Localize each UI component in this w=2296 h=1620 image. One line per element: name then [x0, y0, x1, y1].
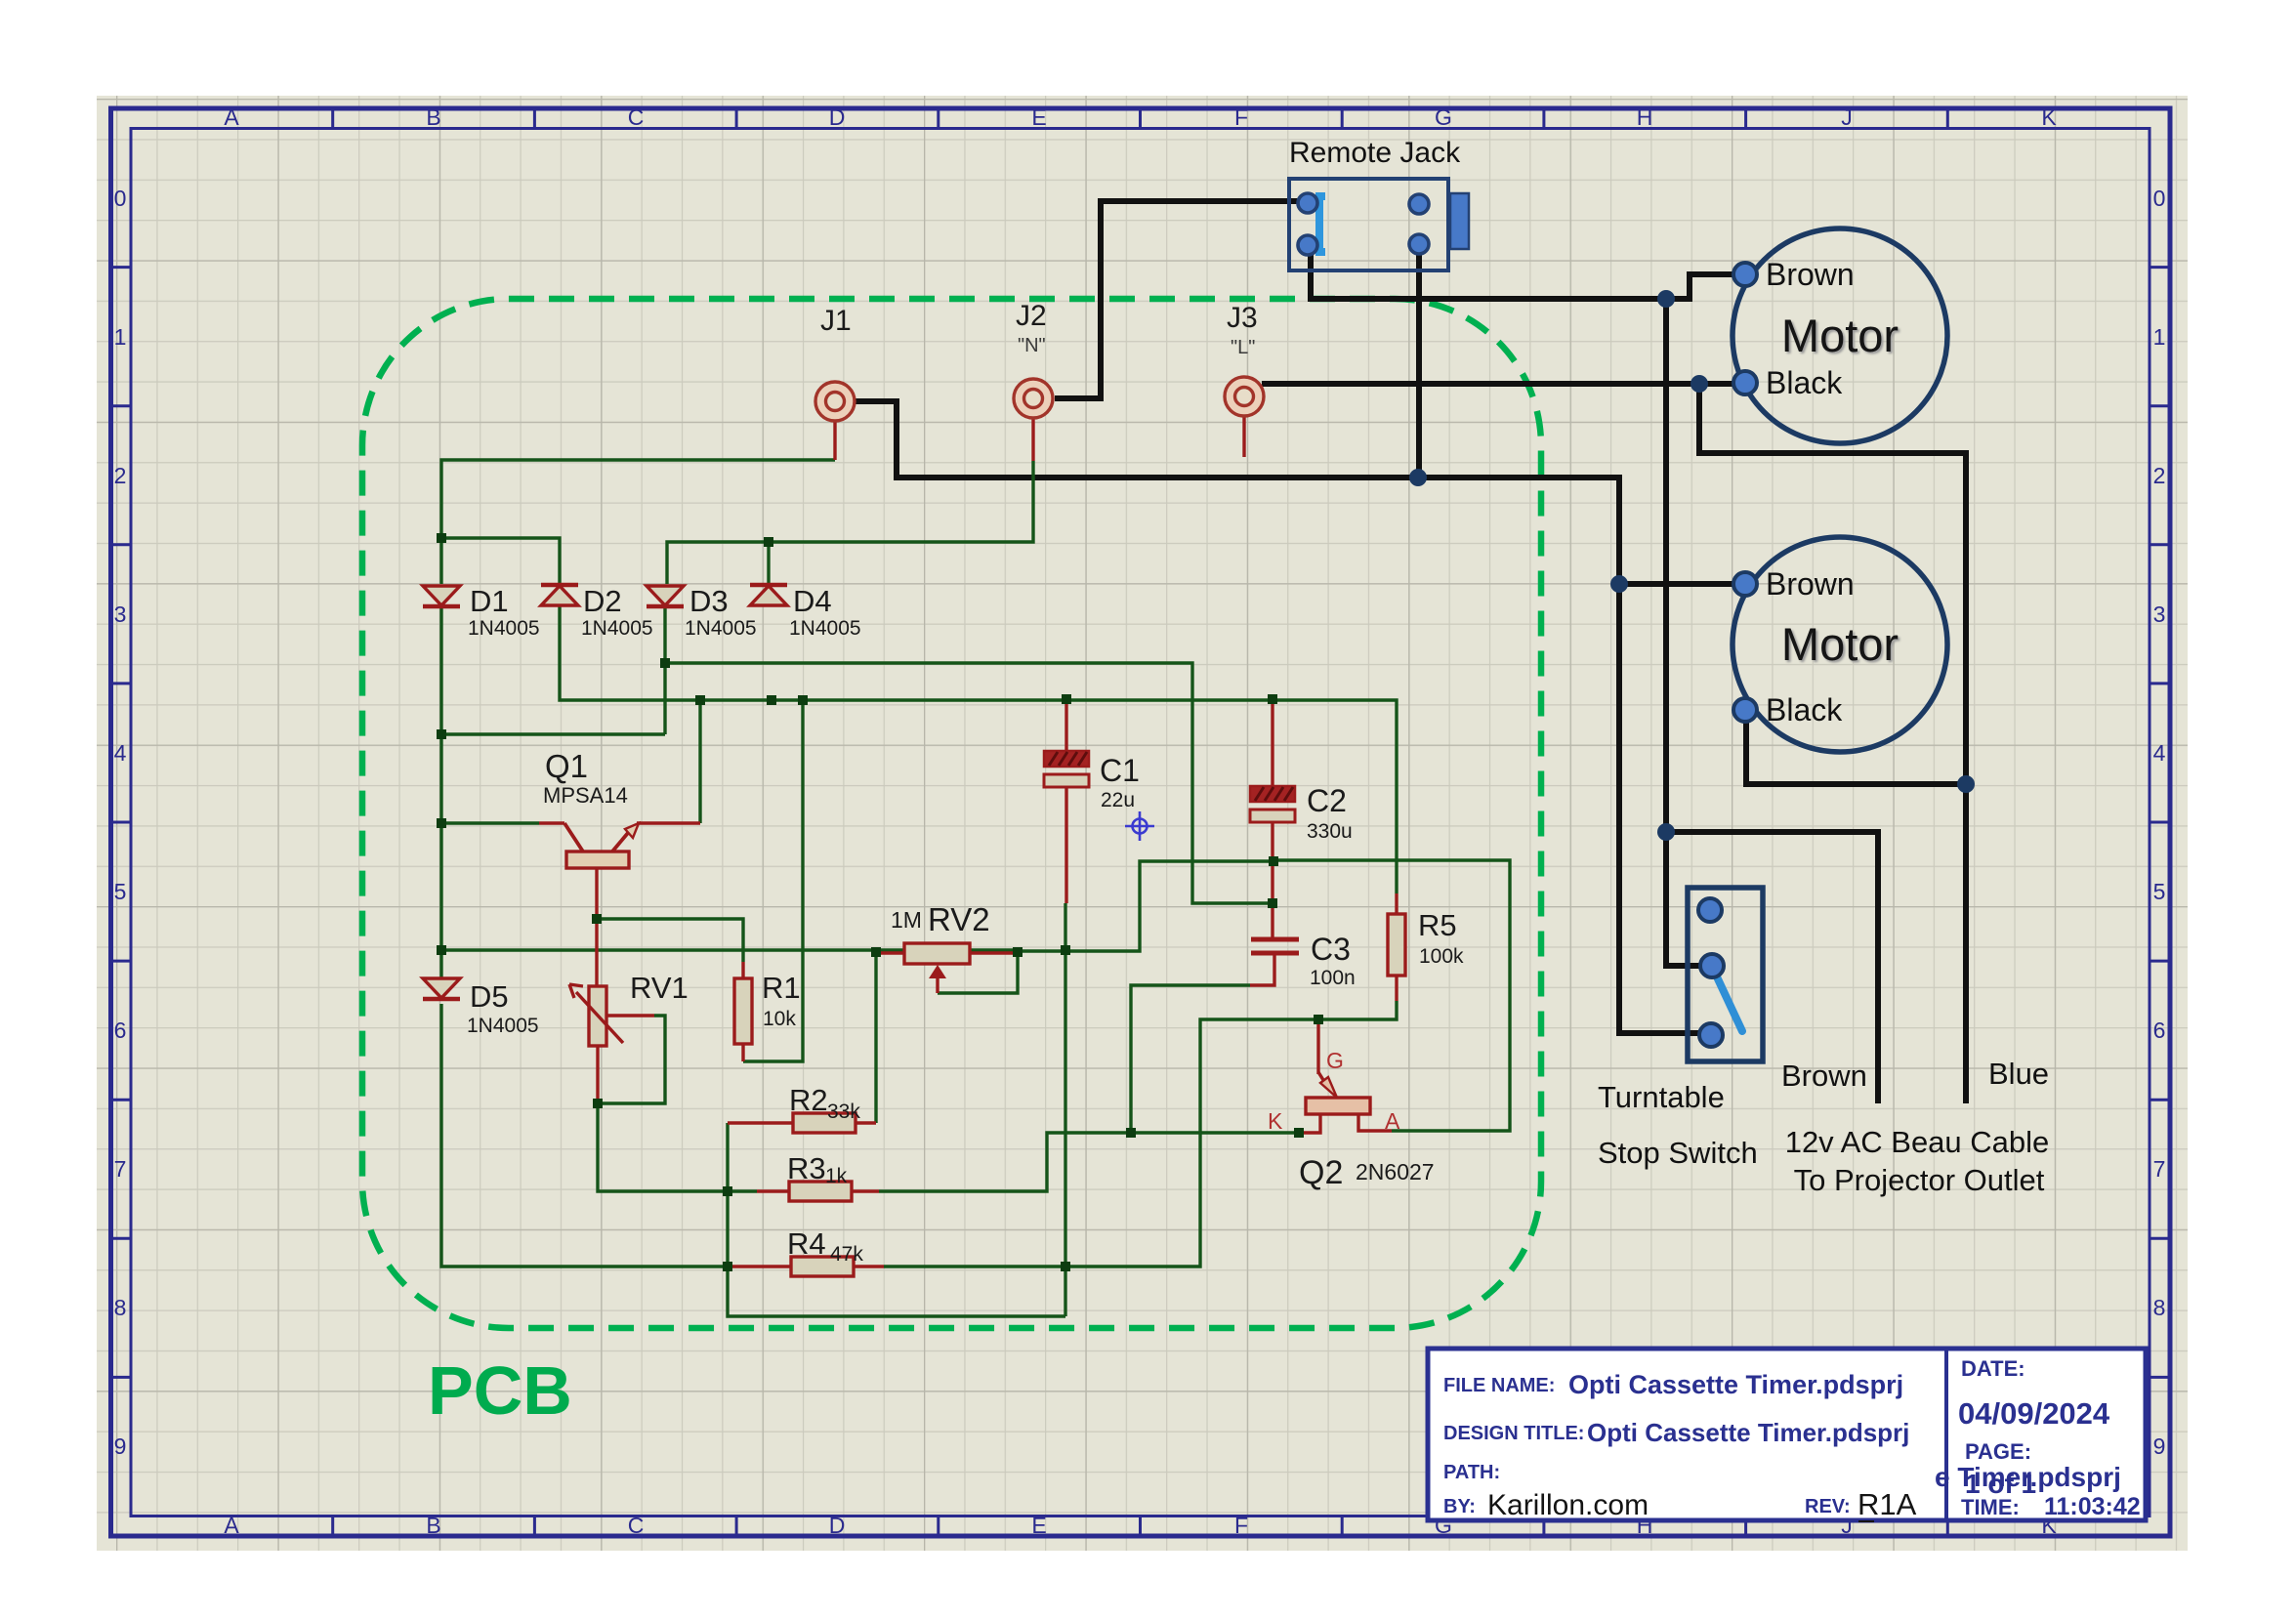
connector J1 pad — [815, 305, 855, 421]
svg-text:6: 6 — [114, 1018, 127, 1043]
svg-text:Stop Switch: Stop Switch — [1598, 1136, 1758, 1170]
wire green Q1 base node to R1 top — [597, 919, 743, 962]
wire green R3 right to Q2 cathode line — [879, 1133, 1299, 1191]
wire black remote jack ring pin down to J1 net — [1416, 246, 1422, 478]
wire green ground rail D5 to RV2 node — [441, 948, 1018, 951]
title block — [1428, 1349, 2146, 1521]
svg-text:REV:: REV: — [1805, 1496, 1851, 1517]
frame zone tick marks — [111, 108, 2171, 1536]
wire green C3 bottom to K line — [1131, 985, 1250, 1133]
svg-text:1M: 1M — [891, 907, 922, 933]
svg-text:R4: R4 — [787, 1226, 826, 1261]
wire black branch to motor2 brown terminal — [1620, 581, 1737, 587]
wire red RV2 left lead — [876, 951, 904, 954]
wire red C2 top lead — [1271, 699, 1273, 786]
svg-text:RV2: RV2 — [928, 901, 990, 937]
svg-text:22u: 22u — [1101, 789, 1135, 811]
sheet border outer frame — [111, 108, 2171, 1536]
svg-text:1: 1 — [114, 324, 127, 350]
svg-text:D5: D5 — [470, 979, 509, 1014]
capacitor C1 (22u, polarized) — [1044, 751, 1140, 811]
wire black brown cable branch — [1666, 832, 1878, 1103]
svg-text:0: 0 — [114, 186, 127, 211]
svg-text:"N": "N" — [1018, 335, 1046, 356]
wire green R2 left vertical and bottom rail — [728, 1123, 1065, 1316]
wire red RV1 wiper lead — [607, 1014, 654, 1017]
svg-text:BY:: BY: — [1443, 1496, 1476, 1517]
svg-text:E: E — [1031, 104, 1046, 130]
wire green supply rail D2 anode to R5 top — [560, 605, 1397, 893]
svg-text:7: 7 — [114, 1156, 127, 1182]
resistor R2 (33k) — [789, 1083, 860, 1133]
svg-text:04/09/2024: 04/09/2024 — [1958, 1396, 2110, 1431]
wire red Q2 cathode foot — [1299, 1113, 1320, 1133]
diode D5 (1N4005) — [423, 978, 539, 1037]
motor 1 black terminal — [1733, 371, 1757, 395]
svg-text:1N4005: 1N4005 — [467, 1015, 539, 1037]
svg-text:J1: J1 — [820, 305, 852, 337]
motor 2 black terminal — [1733, 698, 1757, 722]
svg-text:Q1: Q1 — [545, 748, 588, 784]
wire red R1 bottom lead — [741, 1044, 744, 1061]
svg-text:5: 5 — [114, 879, 127, 904]
svg-text:Brown: Brown — [1781, 1059, 1867, 1093]
svg-text:Opti Cassette Timer.pdsprj: Opti Cassette Timer.pdsprj — [1568, 1370, 1903, 1399]
svg-text:R3: R3 — [787, 1151, 826, 1185]
svg-text:8: 8 — [114, 1295, 127, 1320]
connector J2 pad — [1014, 300, 1053, 418]
motor 1 — [1732, 228, 1947, 443]
svg-text:J3: J3 — [1227, 302, 1258, 334]
wire green D3 node row to C3 top net — [665, 663, 1273, 903]
wire red R4 right lead — [854, 1265, 884, 1267]
svg-text:Karillon.com: Karillon.com — [1487, 1489, 1649, 1521]
svg-text:1k: 1k — [825, 1165, 848, 1187]
svg-text:Brown: Brown — [1766, 566, 1855, 602]
svg-text:PAGE:: PAGE: — [1965, 1439, 2031, 1464]
svg-text:7: 7 — [2153, 1156, 2166, 1182]
resistor R4 (47k) — [787, 1226, 863, 1276]
svg-text:H: H — [1637, 104, 1653, 130]
svg-text:MPSA14: MPSA14 — [543, 783, 628, 808]
diode D3 (1N4005) — [647, 584, 757, 640]
svg-text:1: 1 — [2153, 324, 2166, 350]
wire red Q2 gate lead — [1316, 1019, 1319, 1074]
svg-text:Motor: Motor — [1781, 310, 1899, 361]
wire green C2 bottom to Q2 anode loop — [1273, 860, 1510, 1131]
wire green Q1 collector to left rail — [441, 821, 539, 824]
motor 1 brown terminal — [1733, 263, 1757, 286]
wire green R1 bottom to supply rail — [743, 700, 803, 1061]
wire green Q1 emitter to supply rail — [698, 700, 701, 823]
svg-text:Remote Jack: Remote Jack — [1289, 137, 1461, 169]
svg-text:100k: 100k — [1419, 945, 1464, 968]
wire black vertical to switch middle pin — [1666, 299, 1701, 966]
wire green left rail D1 to D5 — [439, 605, 442, 978]
svg-text:F: F — [1234, 104, 1248, 130]
svg-text:B: B — [426, 1513, 440, 1538]
wire red Q1 base lead — [595, 868, 598, 919]
svg-text:G: G — [1326, 1048, 1344, 1073]
wire green branch to D2 cathode — [441, 538, 560, 584]
svg-text:2: 2 — [2153, 463, 2166, 488]
svg-text:C3: C3 — [1311, 932, 1351, 967]
green wire junction dots — [437, 533, 446, 543]
wire red R5 bottom lead — [1395, 976, 1398, 1001]
remote jack connector — [1289, 137, 1469, 270]
svg-text:Blue: Blue — [1988, 1057, 2049, 1091]
resistor R5 (100k) — [1388, 908, 1464, 976]
diode D1 (1N4005) — [423, 584, 540, 640]
black wire junction dots — [1409, 469, 1427, 486]
svg-text:J: J — [1841, 104, 1853, 130]
wire red J2 stub — [1031, 419, 1034, 461]
diode D2 (1N4005) — [541, 584, 653, 640]
svg-text:0: 0 — [2153, 186, 2166, 211]
wire red C1 top lead — [1065, 699, 1067, 751]
svg-text:B: B — [426, 104, 440, 130]
svg-text:K: K — [1268, 1108, 1283, 1134]
wire black J3 to motor1 black terminal — [1262, 381, 1745, 387]
PCB dashed boundary outline — [362, 299, 1541, 1328]
svg-text:1N4005: 1N4005 — [581, 617, 653, 640]
svg-text:A: A — [1385, 1108, 1400, 1134]
wire black motor1 black branch to blue cable — [1699, 384, 1966, 1103]
svg-text:RV1: RV1 — [630, 971, 689, 1005]
transistor Q2 (2N6027 PUT) — [1268, 1048, 1435, 1191]
wire red Q1 collector lead — [539, 821, 564, 824]
svg-text:47k: 47k — [830, 1243, 863, 1266]
wire black J2 to remote jack tip pin — [1055, 201, 1313, 398]
svg-text:D: D — [829, 1513, 846, 1538]
sheet border inner frame — [131, 129, 2150, 1516]
svg-text:J2: J2 — [1016, 300, 1047, 332]
svg-text:6: 6 — [2153, 1018, 2166, 1043]
svg-text:1N4005: 1N4005 — [789, 617, 861, 640]
svg-text:D: D — [829, 104, 846, 130]
wire red R4 left lead — [728, 1265, 791, 1267]
wire green D4 anode stub — [767, 542, 770, 584]
wire red J1 stub — [833, 422, 836, 460]
wire green RV1 wiper loop — [598, 1016, 665, 1103]
svg-text:D3: D3 — [689, 584, 729, 618]
wire green left rail D5 to R4 row — [441, 1004, 728, 1267]
svg-text:PCB: PCB — [428, 1352, 572, 1429]
svg-text:e Timer.pdsprj: e Timer.pdsprj — [1935, 1462, 2121, 1492]
svg-text:D4: D4 — [793, 584, 832, 618]
wire green R4 right loop to R5 bottom — [884, 1001, 1397, 1267]
wire red C1 bottom lead — [1065, 787, 1067, 903]
svg-text:Opti Cassette Timer.pdsprj: Opti Cassette Timer.pdsprj — [1587, 1418, 1909, 1447]
capacitor C2 (330u, polarized) — [1250, 783, 1353, 843]
svg-text:330u: 330u — [1307, 820, 1353, 843]
wire green RV2 wiper to right terminal — [938, 953, 1018, 993]
wire green C1 bottom long vertical — [1064, 903, 1066, 1316]
svg-text:DATE:: DATE: — [1961, 1356, 2025, 1381]
svg-text:R5: R5 — [1418, 908, 1457, 942]
wire red J3 stub — [1242, 417, 1245, 457]
svg-text:5: 5 — [2153, 879, 2166, 904]
wire red C2 bottom to C3 top lead — [1271, 822, 1273, 939]
connector J3 pad — [1225, 302, 1264, 416]
svg-text:C: C — [628, 104, 645, 130]
wire red R2 left lead — [728, 1121, 793, 1124]
svg-text:D1: D1 — [470, 584, 509, 618]
svg-text:12v AC Beau Cable: 12v AC Beau Cable — [1785, 1125, 2050, 1159]
svg-text:Turntable: Turntable — [1598, 1080, 1725, 1114]
svg-text:2: 2 — [114, 463, 127, 488]
svg-text:Motor: Motor — [1781, 618, 1899, 670]
resistor R1 (10k) — [734, 971, 801, 1044]
wire red RV2 wiper lead — [936, 969, 939, 993]
wire red RV2 right lead — [970, 951, 1018, 954]
wire red RV1 bottom lead — [596, 1046, 599, 1103]
svg-text:9: 9 — [114, 1433, 127, 1459]
svg-text:F: F — [1234, 1513, 1248, 1538]
svg-text:TIME:: TIME: — [1961, 1495, 2020, 1519]
svg-text:C1: C1 — [1100, 753, 1140, 788]
motor 2 — [1732, 537, 1947, 752]
svg-text:Black: Black — [1766, 365, 1843, 400]
svg-text:8: 8 — [2153, 1295, 2166, 1320]
transistor Q1 (MPSA14) — [543, 748, 639, 868]
wire red R1 top lead — [741, 962, 744, 978]
potentiometer RV1 — [569, 971, 689, 1046]
wire red R2 right lead — [856, 1121, 876, 1124]
wire green RV2 node up to C2 bottom node — [1018, 861, 1273, 953]
svg-text:Brown: Brown — [1766, 257, 1855, 292]
motor 2 brown terminal — [1733, 572, 1757, 596]
wire red R3 left lead — [757, 1189, 789, 1192]
svg-text:4: 4 — [114, 740, 127, 766]
svg-text:R1: R1 — [762, 971, 801, 1005]
svg-text:Black: Black — [1766, 692, 1843, 727]
svg-text:9: 9 — [2153, 1433, 2166, 1459]
diode D4 (1N4005) — [750, 584, 861, 640]
svg-text:D2: D2 — [583, 584, 622, 618]
svg-text:1N4005: 1N4005 — [468, 617, 540, 640]
svg-text:A: A — [224, 104, 239, 130]
svg-text:2N6027: 2N6027 — [1356, 1159, 1435, 1184]
wire black J1 to turntable switch bottom pin — [856, 401, 1704, 1033]
svg-text:100n: 100n — [1310, 967, 1356, 989]
wire green J2 net to D3 cathode — [667, 461, 1033, 584]
wire green J1 net to D1 anode — [441, 460, 835, 584]
svg-text:C: C — [628, 1513, 645, 1538]
capacitor C3 (100n) — [1251, 932, 1356, 989]
svg-text:4: 4 — [2153, 740, 2166, 766]
svg-text:A: A — [224, 1513, 239, 1538]
svg-text:PATH:: PATH: — [1443, 1462, 1500, 1483]
svg-text:K: K — [2041, 104, 2057, 130]
svg-text:FILE NAME:: FILE NAME: — [1443, 1375, 1555, 1396]
wire red Q2 anode foot — [1358, 1113, 1392, 1131]
wire black remote jack sleeve to motor1 brown — [1311, 247, 1737, 299]
wire green R2 right to RV2 left — [874, 953, 877, 1123]
wire green D3 anode vertical — [663, 605, 666, 734]
origin crosshair marker — [1125, 811, 1154, 841]
svg-text:R2: R2 — [789, 1083, 828, 1117]
svg-text:Q2: Q2 — [1299, 1154, 1343, 1191]
svg-text:11:03:42: 11:03:42 — [2044, 1493, 2141, 1520]
wire green RV1 bottom to R3 left — [598, 1103, 757, 1191]
wire red R3 right lead — [852, 1189, 879, 1192]
resistor R3 (1k) — [787, 1151, 852, 1201]
wire red C3 bottom lead — [1250, 952, 1274, 985]
potentiometer RV2 (1M) — [891, 901, 990, 978]
svg-text:To Projector Outlet: To Projector Outlet — [1794, 1163, 2045, 1197]
svg-text:33k: 33k — [827, 1101, 860, 1123]
svg-text:"L": "L" — [1231, 337, 1255, 358]
svg-text:3: 3 — [114, 602, 127, 627]
turntable stop switch — [1598, 888, 1763, 1170]
svg-text:10k: 10k — [763, 1008, 796, 1030]
svg-text:3: 3 — [2153, 602, 2166, 627]
svg-text:R1A: R1A — [1858, 1487, 1917, 1521]
wire red Q1 emitter lead — [637, 821, 700, 824]
svg-text:G: G — [1435, 104, 1452, 130]
wire red R5 top lead — [1395, 893, 1398, 914]
svg-text:C2: C2 — [1307, 783, 1347, 818]
wire red RV1 top lead — [595, 919, 598, 986]
svg-text:E: E — [1031, 1513, 1046, 1538]
wire black motor2 black to blue cable junction — [1746, 710, 1966, 784]
svg-text:1N4005: 1N4005 — [685, 617, 757, 640]
wire green row to D3 vertical — [441, 732, 665, 735]
svg-text:DESIGN TITLE:: DESIGN TITLE: — [1443, 1423, 1584, 1444]
